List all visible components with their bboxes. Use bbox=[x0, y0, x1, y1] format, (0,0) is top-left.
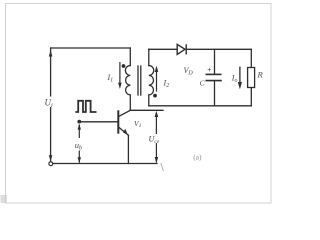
transistor V1 base bar bbox=[117, 110, 119, 133]
transformer core bbox=[137, 66, 139, 95]
transformer primary top lead bbox=[129, 48, 131, 66]
inductor L1 primary winding bbox=[125, 66, 130, 96]
wire: collector stub bbox=[130, 109, 163, 111]
wire: base wire bbox=[79, 121, 118, 123]
label Ui bbox=[44, 97, 57, 110]
arrow U_ce lower bbox=[155, 143, 157, 163]
svg-text:Io: Io bbox=[231, 74, 238, 85]
transformer secondary bottom lead bbox=[148, 95, 150, 106]
svg-text:I1: I1 bbox=[107, 73, 114, 84]
terminal circle bbox=[49, 162, 53, 166]
capacitor C bottom lead bbox=[214, 81, 216, 105]
svg-text:C: C bbox=[200, 78, 206, 87]
svg-text:ub: ub bbox=[75, 140, 82, 152]
svg-text:VD: VD bbox=[184, 66, 194, 77]
arrow Io bbox=[239, 67, 241, 84]
arrow I2 bbox=[156, 70, 158, 92]
svg-text:I2: I2 bbox=[163, 79, 170, 90]
wire: left input vertical (upper) bbox=[50, 48, 52, 96]
resistor R bottom lead bbox=[250, 88, 252, 106]
transformer primary bottom lead bbox=[129, 95, 131, 110]
faint slash mark bbox=[161, 163, 164, 171]
transistor V1 emitter lead bbox=[119, 127, 129, 135]
inductor L2 secondary winding bbox=[149, 66, 154, 96]
wire: output bottom rail bbox=[149, 105, 252, 107]
svg-text:+: + bbox=[207, 67, 211, 74]
resistor R bbox=[248, 68, 255, 88]
arrow U_ce upper bbox=[155, 114, 157, 135]
wire: bottom rail (primary side) bbox=[53, 163, 158, 165]
resistor R top lead bbox=[250, 49, 252, 67]
wire: diode to right corner bbox=[187, 48, 252, 50]
wire: left input vertical (lower) bbox=[50, 107, 52, 161]
diode VD bbox=[177, 44, 186, 54]
svg-text:R: R bbox=[257, 70, 264, 80]
capacitor C plates bbox=[206, 74, 222, 80]
capacitor C top lead bbox=[214, 49, 216, 73]
square wave symbol bbox=[75, 101, 96, 112]
wire: top rail left bbox=[51, 47, 131, 49]
primary dot bbox=[122, 64, 126, 68]
node dot (base drive) bbox=[77, 120, 81, 124]
wire: top rail right (secondary to diode) bbox=[149, 48, 177, 50]
transistor V1 collector lead bbox=[119, 110, 130, 116]
svg-text:Uce: Uce bbox=[149, 135, 160, 146]
transistor V1 emitter vertical bbox=[127, 135, 129, 163]
svg-text:V1: V1 bbox=[134, 119, 142, 129]
arrow U_i down arrowhead bbox=[49, 155, 53, 161]
secondary dot bbox=[153, 94, 157, 98]
arrow u_b upper bbox=[78, 125, 80, 139]
transformer secondary top lead bbox=[148, 49, 150, 65]
svg-text:(a): (a) bbox=[193, 153, 202, 162]
arrow U_i up arrowhead bbox=[49, 50, 53, 56]
arrow I1 bbox=[119, 62, 121, 85]
arrow u_b lower bbox=[78, 151, 80, 163]
border frame bbox=[6, 4, 272, 204]
corner smudge bbox=[1, 195, 8, 203]
transistor V1 emitter arrowhead bbox=[123, 129, 128, 135]
